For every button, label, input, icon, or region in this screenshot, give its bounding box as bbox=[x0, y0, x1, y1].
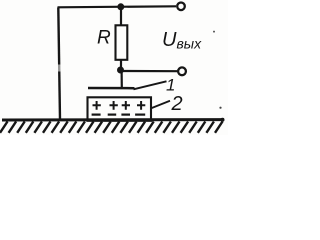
speck dots bbox=[213, 31, 215, 33]
minus charges in box bbox=[92, 113, 146, 115]
leader line label 2 bbox=[151, 101, 171, 109]
svg-text:2: 2 bbox=[171, 93, 183, 115]
node junction bottom bbox=[117, 67, 124, 74]
wire node down to plate bbox=[120, 70, 122, 88]
leader line label 1 bbox=[134, 81, 167, 89]
dielectric box 2 bbox=[88, 97, 152, 121]
wire junction to resistor top bbox=[120, 7, 122, 25]
wire node to lower terminal bbox=[120, 70, 177, 72]
svg-text:Uвых: Uвых bbox=[162, 29, 202, 51]
wire left vertical bbox=[58, 8, 60, 120]
plus charges in box bbox=[93, 101, 146, 110]
wire resistor bottom to node bbox=[120, 60, 122, 70]
terminal bottom bbox=[178, 67, 186, 75]
plate electrode 1 bbox=[88, 87, 135, 90]
svg-text:R: R bbox=[97, 28, 111, 49]
node junction top bbox=[117, 3, 124, 10]
resistor R bbox=[116, 25, 128, 60]
faded scan gap on left wire bbox=[57, 65, 62, 72]
ground line bbox=[2, 118, 224, 121]
terminal top bbox=[177, 3, 185, 11]
ground hatching bbox=[0, 122, 223, 133]
svg-text:1: 1 bbox=[166, 76, 175, 95]
wire top horizontal bbox=[58, 6, 177, 7]
